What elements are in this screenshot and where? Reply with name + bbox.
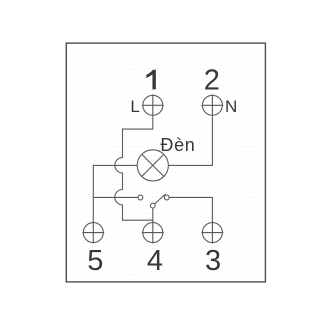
terminal 5 bbox=[82, 222, 104, 244]
terminal 2 bbox=[202, 94, 224, 116]
dotted canvas background bbox=[66, 43, 265, 282]
wire from terminal 1 to node at terminal 4 line (with two hops) bbox=[115, 116, 153, 220]
wire right contact to terminal 3 bbox=[169, 197, 212, 222]
terminal 1 bbox=[142, 94, 164, 116]
wire pivot down to terminal 4 bbox=[152, 208, 154, 223]
wire lamp left lead to left column bbox=[93, 165, 137, 222]
switch pivot bbox=[150, 203, 155, 208]
svg-text:L: L bbox=[130, 97, 139, 116]
switch right contact bbox=[164, 195, 169, 200]
switch lever bbox=[154, 194, 165, 204]
terminal 4 bbox=[142, 222, 164, 244]
svg-text:4: 4 bbox=[147, 245, 163, 277]
label 1 bbox=[146, 70, 156, 90]
svg-text:3: 3 bbox=[205, 245, 221, 277]
wire left column to switch left contact bbox=[93, 196, 138, 198]
wire from terminal 2 down to lamp right lead bbox=[168, 116, 212, 165]
terminal 3 bbox=[202, 222, 224, 244]
border frame bbox=[66, 43, 265, 282]
switch left contact bbox=[138, 195, 143, 200]
svg-text:5: 5 bbox=[87, 245, 103, 277]
svg-text:2: 2 bbox=[204, 65, 220, 97]
svg-text:Đèn: Đèn bbox=[160, 135, 195, 155]
lamp Đèn bbox=[137, 150, 168, 181]
svg-text:N: N bbox=[225, 97, 237, 116]
